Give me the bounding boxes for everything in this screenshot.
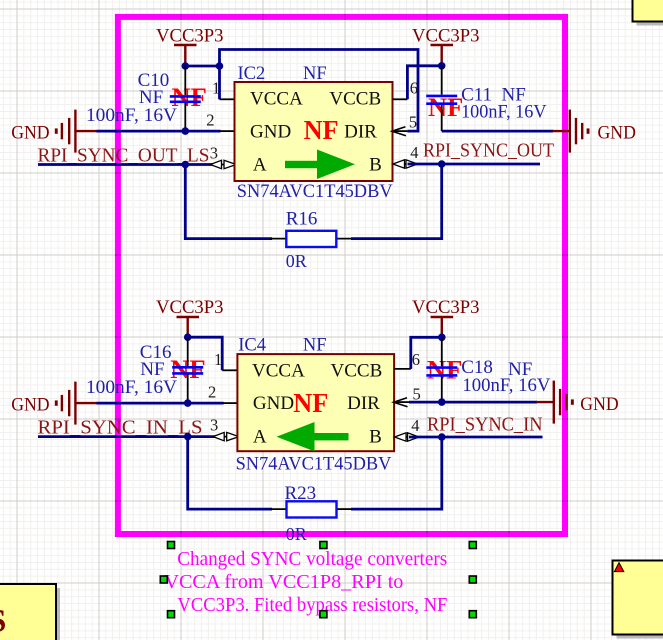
- wire R23 up to pin4: [351, 437, 442, 509]
- svg-text:A: A: [253, 427, 267, 448]
- svg-text:NF: NF: [304, 114, 339, 145]
- svg-text:4: 4: [411, 416, 419, 435]
- svg-text:100nF, 16V: 100nF, 16V: [86, 377, 177, 398]
- capacitor C11: [426, 66, 457, 131]
- wire VCC3P3 junction to rail: [185, 65, 219, 68]
- wire VCC to pin1: [188, 337, 223, 370]
- svg-text:S: S: [0, 604, 6, 640]
- svg-text:GND: GND: [580, 395, 618, 415]
- svg-text:IC4: IC4: [238, 336, 266, 356]
- svg-text:VCC3P3: VCC3P3: [156, 27, 224, 47]
- pin 3 stub with bidirectional arrows (IC4): [213, 432, 239, 440]
- junction at pin4/R16: [438, 160, 446, 168]
- wire GND to pin2: [97, 402, 224, 405]
- wire GND to pin2: [97, 130, 221, 133]
- pin 1 stub: [220, 98, 235, 100]
- pin 1 stub (IC4): [222, 369, 237, 371]
- resistor R16: [270, 231, 353, 247]
- svg-text:RPI_SYNC_IN: RPI_SYNC_IN: [427, 413, 543, 435]
- svg-text:SN74AVC1T45DBV: SN74AVC1T45DBV: [236, 454, 392, 475]
- svg-text:GND: GND: [598, 123, 636, 143]
- ground symbol GND (right, IC4): [537, 381, 574, 424]
- note box top-right with shadow: [633, 0, 663, 26]
- pin 6 stub: [393, 98, 408, 100]
- svg-text:0R: 0R: [286, 251, 307, 271]
- junction at pin4/R23: [438, 433, 446, 441]
- power symbol VCC3P3 (left, IC4): [177, 317, 200, 337]
- svg-text:NF: NF: [428, 93, 463, 122]
- svg-text:1: 1: [214, 350, 222, 369]
- note box bottom-left with shadow: [0, 584, 60, 640]
- svg-text:0R: 0R: [286, 524, 307, 544]
- svg-text:GND: GND: [11, 123, 49, 143]
- svg-text:100nF, 16V: 100nF, 16V: [462, 375, 550, 396]
- junction at pin3/R16: [182, 161, 190, 169]
- svg-text:VCCB: VCCB: [329, 89, 381, 110]
- svg-text:100nF, 16V: 100nF, 16V: [86, 105, 177, 126]
- pin 4 stub with bidirectional arrows (IC4): [394, 433, 419, 441]
- magenta selection frame: [118, 17, 565, 534]
- junction at pin3/R23: [184, 433, 192, 441]
- svg-text:6: 6: [410, 78, 418, 97]
- svg-text:R23: R23: [285, 483, 317, 504]
- svg-text:VCCB: VCCB: [331, 361, 383, 382]
- pin 2 stub (IC4): [222, 402, 237, 404]
- svg-text:VCC3P3: VCC3P3: [412, 27, 480, 47]
- svg-text:B: B: [369, 155, 382, 176]
- ground symbol GND (left, IC2): [55, 110, 97, 153]
- wire C11 bottom to GND: [442, 130, 553, 133]
- power symbol VCC3P3 (left, IC2): [174, 45, 197, 66]
- note box bottom-right with shadow: [613, 561, 663, 639]
- pin 5 stub with input arrow: [392, 127, 407, 136]
- svg-text:3: 3: [210, 416, 218, 435]
- power symbol VCC3P3 (right, IC2): [431, 45, 454, 66]
- junction at C18 bottom: [438, 398, 446, 406]
- junction at C11 top: [438, 62, 446, 70]
- wire RPI_SYNC_IN_LS: [38, 435, 219, 438]
- svg-text:VCCA: VCCA: [252, 361, 305, 382]
- svg-text:2: 2: [208, 382, 216, 401]
- svg-text:4: 4: [410, 143, 418, 162]
- wire pin3 down to R23: [188, 437, 272, 510]
- svg-text:2: 2: [206, 110, 214, 129]
- svg-text:5: 5: [409, 112, 417, 131]
- svg-text:GND: GND: [253, 393, 294, 414]
- capacitor C16: [172, 337, 203, 403]
- ground symbol GND (right, IC2): [553, 110, 590, 153]
- grid lines crossing selection frame: [115, 14, 568, 537]
- svg-text:6: 6: [412, 350, 420, 369]
- wire RPI_SYNC_OUT_LS: [38, 163, 216, 166]
- wire RPI_SYNC_OUT: [408, 163, 541, 166]
- pin 3 stub with bidirectional arrows: [210, 160, 236, 168]
- svg-text:SN74AVC1T45DBV: SN74AVC1T45DBV: [237, 181, 393, 202]
- pin 4 stub with bidirectional arrows: [393, 160, 418, 168]
- wire pin5/C18 to GND: [409, 401, 537, 404]
- component IC2 body: [235, 82, 393, 181]
- svg-text:A: A: [253, 155, 267, 176]
- svg-text:IC2: IC2: [238, 64, 266, 84]
- svg-text:RPI_SYNC_OUT: RPI_SYNC_OUT: [423, 140, 554, 162]
- svg-text:VCCA from VCC1P8_RPI to: VCCA from VCC1P8_RPI to: [164, 571, 403, 593]
- svg-text:5: 5: [413, 384, 421, 403]
- power symbol VCC3P3 (right, IC4): [431, 317, 454, 337]
- wire pin6 to VCC junction: [407, 66, 441, 100]
- svg-text:GND: GND: [250, 121, 291, 142]
- svg-text:VCC3P3: VCC3P3: [156, 298, 224, 318]
- pin 2 stub: [220, 130, 235, 132]
- wire pin6 to VCC junction (IC4): [411, 337, 442, 369]
- svg-text:GND: GND: [11, 395, 49, 415]
- wire VCC rail top (pin1 vertical, top rail, down to pin5): [220, 50, 419, 132]
- svg-text:B: B: [369, 427, 382, 448]
- capacitor C18: [426, 337, 457, 402]
- svg-text:NF: NF: [427, 356, 462, 385]
- junction at C16 top: [184, 333, 192, 341]
- wire pin3 down to R16: [185, 165, 272, 239]
- svg-text:Changed SYNC voltage converter: Changed SYNC voltage converters: [177, 548, 447, 570]
- svg-text:3: 3: [210, 143, 218, 162]
- ground symbol GND (left, IC4): [55, 382, 97, 425]
- svg-text:R16: R16: [286, 209, 318, 230]
- direction arrow B to A (green): [277, 422, 349, 451]
- junction at C10 top: [182, 62, 190, 70]
- revision marker triangle (red): [614, 563, 623, 572]
- svg-text:DIR: DIR: [344, 121, 377, 142]
- capacitor C10: [170, 66, 201, 131]
- junction at C18 top: [438, 334, 446, 342]
- resistor R23: [270, 501, 353, 517]
- svg-text:NF: NF: [303, 64, 327, 84]
- pin 5 stub with input arrow (IC4): [394, 398, 409, 407]
- svg-text:1: 1: [212, 78, 220, 97]
- direction arrow A to B (green): [285, 150, 355, 180]
- svg-text:VCC3P3. Fited bypass resistors: VCC3P3. Fited bypass resistors, NF: [177, 594, 447, 616]
- wire RPI_SYNC_IN: [409, 436, 543, 439]
- svg-text:VCC3P3: VCC3P3: [412, 298, 480, 318]
- junction at rail/pin1: [216, 62, 224, 70]
- pin 6 stub (IC4): [394, 368, 411, 370]
- svg-text:NF: NF: [303, 336, 327, 356]
- component IC4 body: [237, 354, 394, 451]
- junction at C16 bottom: [184, 399, 192, 407]
- wire R16 up to pin4: [351, 164, 442, 239]
- svg-text:100nF, 16V: 100nF, 16V: [461, 101, 547, 122]
- selection handles (green): [160, 542, 476, 618]
- junction at C10 bottom: [182, 127, 190, 135]
- svg-text:DIR: DIR: [347, 393, 380, 414]
- svg-text:VCCA: VCCA: [250, 89, 303, 110]
- svg-text:NF: NF: [293, 387, 328, 418]
